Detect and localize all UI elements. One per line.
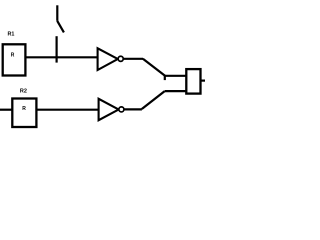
- svg-text:R: R: [22, 106, 26, 112]
- svg-text:R: R: [11, 53, 15, 59]
- switch S1 bottom lead: [55, 36, 57, 62]
- output box U3: [186, 69, 200, 94]
- inverter U2 bubble: [119, 107, 124, 112]
- resistor R1: [3, 44, 26, 75]
- wire left edge to R2: [0, 109, 12, 111]
- wire U2 output: [124, 108, 142, 110]
- inverter U1 triangle: [98, 48, 118, 70]
- wire into output box top: [165, 75, 187, 77]
- switch S1 top lead: [56, 5, 58, 20]
- wire R2 to inverter U2: [36, 109, 99, 111]
- wire top diagonal: [143, 59, 165, 76]
- svg-text:R1: R1: [7, 32, 14, 38]
- wire U1 output: [123, 58, 143, 60]
- svg-text:R2: R2: [20, 89, 27, 95]
- switch S1 blade: [57, 21, 64, 33]
- wire bottom diagonal: [142, 91, 165, 109]
- node stub at top elbow: [164, 76, 166, 80]
- wire R1 to inverter U1: [25, 56, 98, 58]
- inverter U1 bubble: [118, 56, 123, 61]
- wire into output box bottom: [165, 90, 187, 92]
- resistor R2: [12, 99, 36, 128]
- inverter U2 triangle: [99, 99, 119, 120]
- wire output stub: [201, 79, 206, 81]
